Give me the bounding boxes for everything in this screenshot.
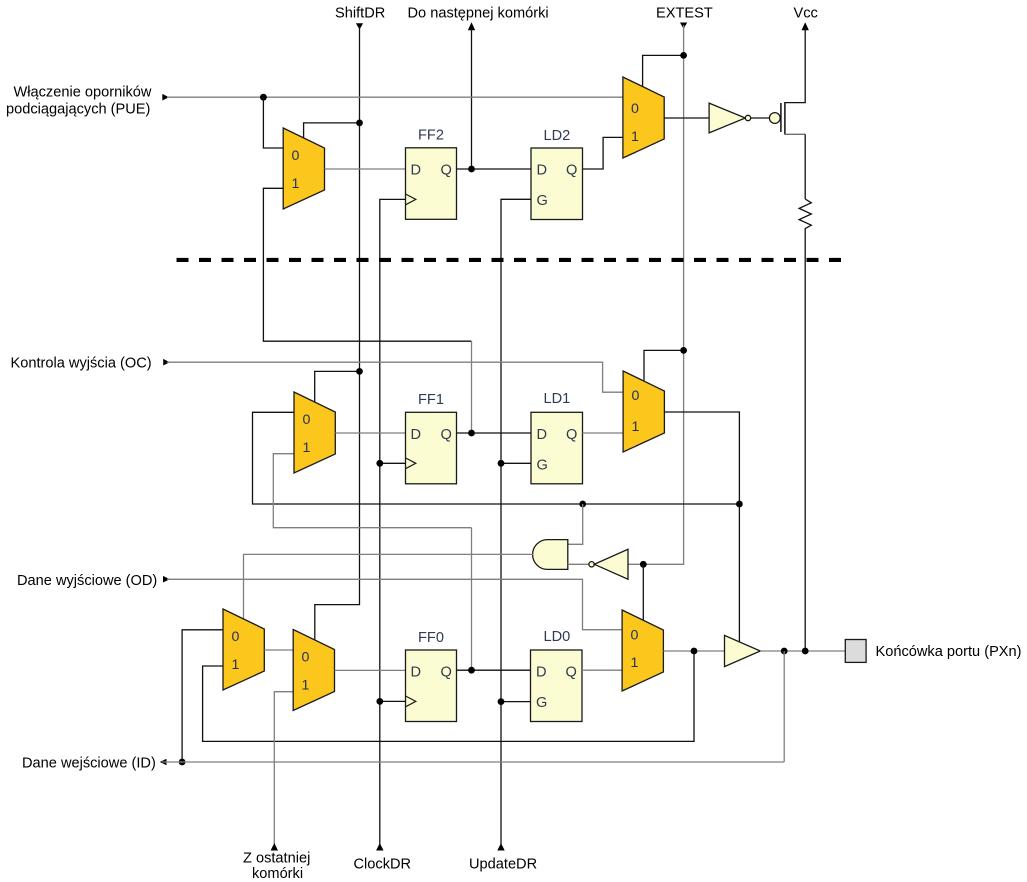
- bubble Q1 gate: [769, 113, 780, 124]
- svg-text:0: 0: [303, 412, 311, 428]
- inverter U1: [709, 103, 745, 133]
- svg-text:Q: Q: [441, 163, 452, 179]
- svg-text:G: G: [536, 695, 547, 711]
- wire FF0.Q feedback vertical: [471, 528, 473, 671]
- wire ClockDR to FF2 clock: [380, 199, 406, 844]
- transistor Q1 channel bar: [784, 102, 786, 135]
- svg-text:G: G: [537, 193, 548, 209]
- wire mux M4 select to EXTEST: [644, 350, 684, 381]
- wire M6 output to FF0.D: [335, 669, 406, 671]
- wire M4 output to net and buffer enable: [664, 412, 739, 642]
- buffer U3 (tri-state): [725, 635, 761, 666]
- node AND input tap on net: [579, 501, 586, 508]
- bubble U1: [745, 115, 750, 120]
- node FF1.Q: [468, 430, 475, 437]
- wire mux M2 select to EXTEST: [643, 55, 684, 86]
- and-gate G1 (mirrored): [533, 540, 568, 570]
- node FF0.Q: [468, 667, 475, 674]
- svg-text:ShiftDR: ShiftDR: [335, 6, 385, 22]
- node PUE tap: [260, 94, 267, 101]
- wire FF1.Q feedback to mux M1 input 1: [263, 188, 471, 341]
- wire LD2.Q to mux M2 input 1: [583, 137, 623, 169]
- svg-text:0: 0: [631, 628, 639, 644]
- pin FF0 clock triangle: [406, 696, 416, 707]
- wire mux M4-output net to mux M3 input 0: [253, 412, 740, 504]
- wire R1 to port node: [804, 230, 806, 651]
- svg-text:Dane wejściowe (ID): Dane wejściowe (ID): [22, 756, 156, 772]
- svg-text:D: D: [411, 665, 422, 681]
- wire LD1.Q to mux M4 input 1: [583, 432, 624, 434]
- arrow ID output (left): [160, 759, 167, 766]
- wire UpdateDR to LD2.G: [501, 199, 531, 844]
- wire to-next-cell vertical: [471, 29, 473, 170]
- wire PUE to mux M1 input 0: [263, 97, 283, 148]
- svg-text:LD0: LD0: [544, 629, 571, 645]
- arrow OD input: [163, 576, 170, 583]
- svg-text:Do następnej komórki: Do następnej komórki: [408, 6, 549, 22]
- mux M6: [293, 630, 334, 711]
- wire output-node feedback to mux M5 input 1: [203, 651, 694, 741]
- node ID tap: [179, 759, 186, 766]
- svg-text:Z ostatniej: Z ostatniej: [243, 851, 310, 867]
- svg-text:Q: Q: [566, 427, 577, 443]
- svg-text:LD1: LD1: [544, 391, 571, 407]
- wire UpdateDR to LD1.G: [501, 462, 531, 464]
- svg-text:1: 1: [632, 419, 640, 435]
- mux M1: [283, 128, 324, 209]
- svg-text:FF2: FF2: [418, 128, 444, 144]
- wire PUE horizontal: [167, 96, 623, 98]
- wire from-last-cell to mux M6 input 1: [274, 692, 293, 844]
- transistor Q1 gate bar: [780, 103, 782, 132]
- svg-text:0: 0: [232, 629, 240, 645]
- node FF1 clock on ClockDR: [376, 460, 383, 467]
- wire ID tap to mux M5 input 0: [182, 630, 223, 762]
- wire LD0.Q to mux M7 input 1: [582, 669, 622, 671]
- node LD1.G on UpdateDR: [498, 460, 505, 467]
- wire ID horizontal: [162, 761, 784, 763]
- svg-text:D: D: [411, 163, 422, 179]
- mux M3: [294, 392, 335, 473]
- wire drain to resistor: [804, 134, 806, 199]
- arrow Vcc (up): [802, 22, 809, 30]
- svg-text:1: 1: [631, 655, 639, 671]
- pin FF2 clock triangle: [406, 194, 416, 205]
- wire net to AND gate input 1: [568, 504, 583, 544]
- node output feedback junction: [691, 648, 698, 655]
- arrow to-next-cell (up): [468, 22, 475, 30]
- wire U3 output to port: [760, 650, 845, 652]
- svg-text:Q: Q: [441, 427, 452, 443]
- wire FF2.Q to LD2.D: [457, 168, 532, 170]
- svg-text:1: 1: [302, 678, 310, 694]
- wire M7 output to buffer U3: [663, 650, 724, 652]
- flip-flop FF0: [406, 650, 457, 722]
- node LD0.G on UpdateDR: [498, 698, 505, 705]
- wire M1 output to FF2.D: [325, 168, 406, 170]
- mux M2: [623, 77, 664, 158]
- svg-text:Vcc: Vcc: [794, 6, 818, 22]
- arrow UpdateDR (up): [497, 843, 504, 851]
- pin FF1 clock triangle: [406, 458, 416, 469]
- wire ClockDR to FF0 clock: [380, 700, 406, 702]
- svg-text:Dane wyjściowe (OD): Dane wyjściowe (OD): [17, 573, 157, 589]
- wire M2 output to inverter U1: [664, 117, 709, 119]
- wire mux M1 select to ShiftDR: [304, 123, 360, 138]
- wire FF0.Q to LD0.D: [457, 669, 531, 671]
- svg-text:0: 0: [632, 388, 640, 404]
- bubble U2: [589, 562, 594, 567]
- wire G1 output to mux M5 select: [244, 554, 534, 619]
- inverter U2 (left-facing): [594, 549, 628, 579]
- wire UpdateDR to LD0.G: [501, 701, 531, 703]
- wire OC to mux M4 input 0: [167, 362, 623, 392]
- svg-text:1: 1: [292, 176, 300, 192]
- node M4 select on EXTEST: [680, 347, 687, 354]
- flip-flop FF2: [406, 148, 457, 220]
- svg-text:D: D: [536, 665, 547, 681]
- wire FF1.Q to LD1.D: [457, 432, 532, 434]
- svg-text:0: 0: [631, 101, 639, 117]
- mux M7: [622, 610, 663, 691]
- svg-text:komórki: komórki: [252, 866, 303, 882]
- svg-text:Q: Q: [566, 163, 577, 179]
- wire FF0.Q feedback to mux M3 input 1: [273, 454, 471, 528]
- arrow OC input: [163, 359, 170, 366]
- node port-pullup junction: [802, 648, 809, 655]
- wire Vcc to transistor source: [785, 29, 805, 103]
- pad port terminal: [845, 640, 866, 663]
- svg-text:D: D: [537, 163, 548, 179]
- svg-text:LD2: LD2: [544, 128, 571, 144]
- wire M3 output to FF1.D: [335, 432, 405, 434]
- wire OD to mux M7 input 0: [167, 579, 622, 629]
- wire inverter U2 output to G1 input 2: [568, 563, 589, 565]
- svg-text:D: D: [411, 427, 422, 443]
- wire ShiftDR vertical: [315, 26, 360, 641]
- wire port node down to ID line: [783, 651, 785, 762]
- svg-text:D: D: [537, 427, 548, 443]
- mux M5: [223, 609, 264, 690]
- svg-text:Włączenie oporników: Włączenie oporników: [14, 85, 152, 101]
- svg-text:FF0: FF0: [418, 630, 444, 646]
- wire EXTEST vertical: [628, 25, 684, 564]
- dashed boundary line: [177, 258, 842, 262]
- svg-text:0: 0: [302, 650, 310, 666]
- wire Q1 drain lead: [785, 133, 805, 135]
- svg-text:1: 1: [303, 440, 311, 456]
- wire FF1.Q feedback vertical: [471, 341, 473, 433]
- wire M7 select vertical: [642, 564, 644, 620]
- node M2 select on EXTEST: [680, 52, 687, 59]
- svg-text:Końcówka portu (PXn): Końcówka portu (PXn): [876, 644, 1022, 660]
- node FF0 clock on ClockDR: [376, 698, 383, 705]
- arrow from-last-cell (up): [271, 843, 278, 851]
- node port-ID junction: [781, 648, 788, 655]
- wire mux M3 select to ShiftDR: [315, 371, 360, 402]
- arrow ShiftDR (down): [356, 23, 363, 29]
- svg-text:Kontrola wyjścia (OC): Kontrola wyjścia (OC): [11, 356, 152, 372]
- flip-flop FF1: [406, 412, 457, 484]
- svg-text:0: 0: [292, 148, 300, 164]
- node M4 net junction: [736, 501, 743, 508]
- wire U1 to Q1 gate: [751, 117, 770, 119]
- node M3 select on ShiftDR: [356, 368, 363, 375]
- svg-text:ClockDR: ClockDR: [354, 857, 412, 873]
- mux M4: [623, 371, 664, 452]
- arrow PUE input: [162, 94, 169, 101]
- latch LD0: [531, 650, 583, 722]
- wire M5 output to mux M6 input 0: [264, 649, 293, 651]
- wire ClockDR to FF1 clock: [380, 462, 406, 464]
- arrow ClockDR (up): [376, 843, 383, 851]
- svg-text:EXTEST: EXTEST: [656, 6, 713, 22]
- node M1 select on ShiftDR: [356, 120, 363, 127]
- arrow EXTEST (down): [680, 23, 687, 29]
- node FF2.Q: [468, 166, 475, 173]
- svg-text:1: 1: [232, 657, 240, 673]
- svg-text:G: G: [537, 458, 548, 474]
- svg-text:Q: Q: [441, 665, 452, 681]
- latch LD2: [531, 148, 583, 220]
- svg-text:UpdateDR: UpdateDR: [469, 857, 537, 873]
- svg-text:FF1: FF1: [418, 392, 444, 408]
- latch LD1: [531, 412, 583, 484]
- svg-text:1: 1: [631, 129, 639, 145]
- svg-text:Q: Q: [566, 665, 577, 681]
- node mux M7 select tap: [640, 561, 647, 568]
- resistor R1: [799, 199, 811, 230]
- svg-text:podciągających (PUE): podciągających (PUE): [6, 102, 150, 118]
